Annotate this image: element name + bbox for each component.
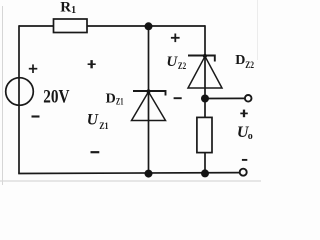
junction node bottom middle <box>145 170 153 178</box>
junction node bottom right <box>201 169 209 177</box>
scan edge artifact right <box>257 0 259 60</box>
wire output top <box>205 97 245 99</box>
wire bottom rail <box>18 172 240 175</box>
resistor RL (load) <box>197 117 212 152</box>
polarity plus of source <box>29 64 38 73</box>
polarity minus of Uo <box>242 159 247 161</box>
junction blob at DZ1 apex <box>146 89 150 93</box>
wire left rail <box>18 25 20 173</box>
zener diode DZ1 <box>132 91 166 121</box>
svg-text:Z1: Z1 <box>99 122 109 132</box>
polarity plus of UZ1 <box>88 60 96 68</box>
svg-text:Z2: Z2 <box>245 60 254 70</box>
svg-text:R1: R1 <box>60 0 76 16</box>
junction node right output <box>201 95 209 103</box>
polarity minus of source <box>32 115 40 117</box>
svg-text:U: U <box>87 112 99 129</box>
svg-text:D: D <box>235 53 245 68</box>
polarity plus of UZ2 <box>171 34 180 43</box>
svg-text:D: D <box>106 91 116 106</box>
junction node top middle <box>145 22 153 30</box>
wire top rail <box>19 25 205 27</box>
polarity minus of UZ1 <box>91 151 100 153</box>
resistor R1 <box>54 19 88 33</box>
terminal output minus <box>240 169 247 176</box>
svg-text:U: U <box>166 54 178 70</box>
svg-text:Z2: Z2 <box>178 62 186 72</box>
voltage source VS 20V <box>6 78 34 106</box>
scan edge artifact left <box>2 6 4 185</box>
svg-text:o: o <box>248 131 253 142</box>
svg-text:Z1: Z1 <box>116 97 124 107</box>
zener diode DZ2 <box>188 56 222 89</box>
wire middle branch <box>148 26 150 174</box>
polarity plus of Uo <box>240 110 248 118</box>
scan edge artifact bottom <box>0 180 261 182</box>
terminal output plus <box>245 95 252 102</box>
svg-text:20V: 20V <box>43 87 69 108</box>
polarity minus of UZ2 <box>174 97 182 99</box>
wire right branch <box>204 25 206 173</box>
junction blob at DZ2 apex <box>203 54 207 58</box>
